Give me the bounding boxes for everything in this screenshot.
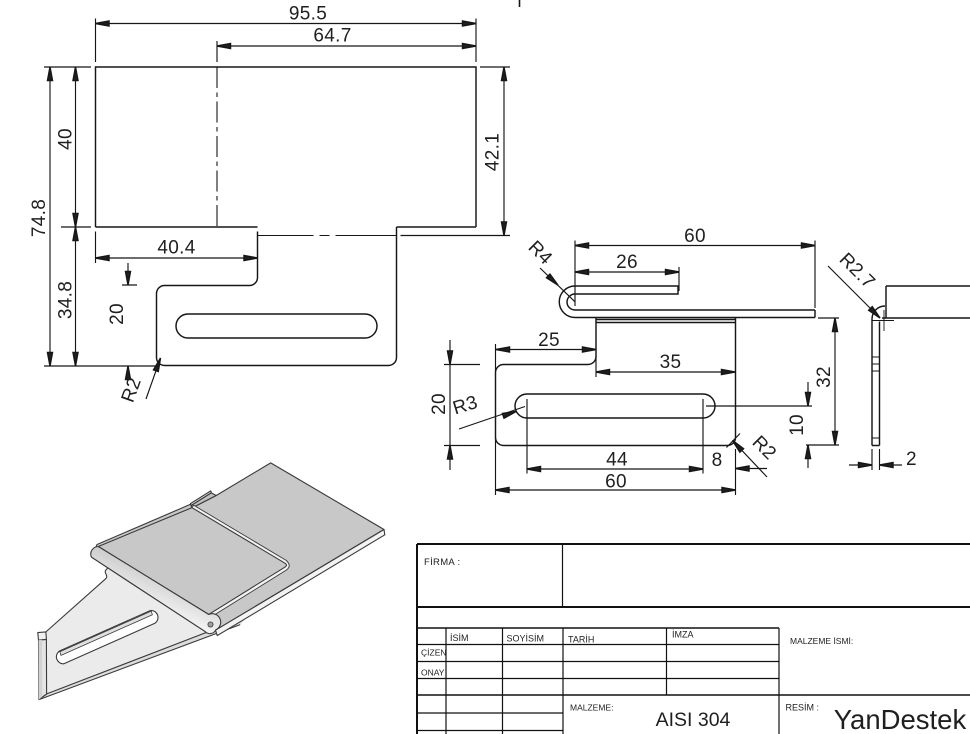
RIGHT END VIEW <box>828 266 970 470</box>
dim 64.7 lines <box>217 41 476 62</box>
svg-text:74.8: 74.8 <box>29 199 50 237</box>
top folded plate edge-on <box>882 286 970 318</box>
dim 8 <box>736 468 768 470</box>
bar visible edges <box>39 567 247 699</box>
clip leaf cut edge sliver <box>192 505 289 617</box>
bar near thickness edge <box>39 617 247 700</box>
bend centerline vertical <box>216 67 218 227</box>
dim 42.1 lines <box>401 67 511 236</box>
soyisim column divider <box>562 628 564 734</box>
svg-text:R2: R2 <box>118 375 146 406</box>
R2.7 leader <box>828 266 880 318</box>
svg-text:R4: R4 <box>524 237 557 270</box>
arm outline middle view <box>496 318 736 446</box>
3D VIEW <box>38 463 385 700</box>
plate outline front view <box>96 67 477 227</box>
dim 25 <box>496 344 597 495</box>
fold end cap hole <box>208 622 213 627</box>
dim 35 <box>596 357 735 378</box>
svg-text:TARİH: TARİH <box>568 635 594 645</box>
slot inner wall sliver <box>60 611 153 655</box>
top stray tick <box>519 0 521 7</box>
onay row line <box>417 678 779 680</box>
label column divider <box>445 628 447 734</box>
svg-text:35: 35 <box>660 352 682 373</box>
slot middle view <box>515 394 715 418</box>
svg-text:64.7: 64.7 <box>313 26 351 47</box>
svg-text:25: 25 <box>538 330 560 351</box>
header row bottom line <box>417 644 779 646</box>
svg-text:34.8: 34.8 <box>56 281 77 319</box>
svg-text:40.4: 40.4 <box>157 238 195 259</box>
svg-text:R2: R2 <box>748 432 780 464</box>
dim 44 <box>527 399 703 474</box>
svg-text:10: 10 <box>787 414 808 436</box>
dim 32 <box>806 318 839 445</box>
svg-text:ONAY: ONAY <box>421 668 445 678</box>
hem main leaf <box>575 310 815 318</box>
cizen row line <box>417 661 779 663</box>
R2 leader middle <box>727 434 768 478</box>
lower rows left <box>417 713 563 731</box>
leader R2 front <box>146 358 161 399</box>
svg-text:60: 60 <box>684 226 706 247</box>
firma cell divider <box>562 544 564 607</box>
svg-text:2: 2 <box>906 449 917 470</box>
MIDDLE VIEW <box>444 241 839 496</box>
bar end tab <box>191 491 212 506</box>
slot front view <box>176 314 377 338</box>
svg-text:32: 32 <box>814 366 835 388</box>
imza column divider <box>778 628 780 734</box>
bend arc R2.7 <box>872 306 885 319</box>
firma row bottom full line <box>417 606 970 608</box>
dim 2 <box>849 449 902 470</box>
dim 40 / 34.8 lines <box>61 67 91 366</box>
svg-text:İMZA: İMZA <box>672 630 694 640</box>
dim 26 <box>575 267 679 291</box>
dim 60 top <box>575 241 815 309</box>
svg-text:60: 60 <box>605 472 627 493</box>
clip fold band R4 <box>91 547 221 634</box>
svg-text:8: 8 <box>712 450 723 471</box>
dim 40.4 lines <box>96 232 258 264</box>
vertical arm edge-on <box>872 319 880 446</box>
plate top face <box>91 463 384 632</box>
svg-text:MALZEME İSMİ:: MALZEME İSMİ: <box>790 636 853 646</box>
arm outline front view <box>157 227 397 366</box>
dim 60 bottom <box>496 449 736 495</box>
svg-text:40: 40 <box>56 128 77 150</box>
header row top line <box>417 627 779 629</box>
svg-text:26: 26 <box>616 252 638 273</box>
svg-text:ÇİZEN: ÇİZEN <box>421 648 447 658</box>
svg-text:R3: R3 <box>450 392 480 419</box>
title block texts <box>421 557 966 734</box>
outer border left <box>416 544 418 734</box>
svg-text:MALZEME:: MALZEME: <box>570 703 613 713</box>
hem fold inner arc <box>567 294 575 310</box>
dim texts front view <box>29 4 504 406</box>
bar end cap top sliver <box>38 632 47 640</box>
svg-text:95.5: 95.5 <box>289 4 327 25</box>
svg-text:AISI 304: AISI 304 <box>656 709 731 731</box>
dim 10 <box>706 382 812 468</box>
R3 leader <box>459 407 525 430</box>
svg-text:44: 44 <box>606 450 628 471</box>
dim 74.8 lines <box>44 67 156 366</box>
clip top face <box>98 508 286 615</box>
tangent ticks on arm <box>872 357 880 438</box>
svg-text:RESİM :: RESİM : <box>786 703 820 713</box>
svg-text:20: 20 <box>429 393 450 415</box>
malzeme row top line <box>417 694 970 696</box>
svg-text:İSİM: İSİM <box>450 633 469 643</box>
dim 20 lines front <box>122 263 137 379</box>
bend center cross ticks <box>872 310 894 331</box>
dim texts middle view <box>429 226 835 493</box>
hem top leaf <box>575 286 678 294</box>
dim 95.5 lines <box>96 19 477 63</box>
svg-text:42.1: 42.1 <box>483 133 504 171</box>
svg-text:YanDestek: YanDestek <box>834 704 967 734</box>
dim 95.5 <box>44 19 510 400</box>
dim texts right view <box>835 249 917 470</box>
dim 20 middle <box>444 340 480 470</box>
svg-text:FİRMA :: FİRMA : <box>424 557 460 568</box>
strip under plate <box>596 320 736 323</box>
svg-text:20: 20 <box>107 303 128 325</box>
arrowheads front view <box>96 21 110 26</box>
svg-text:R2.7: R2.7 <box>835 249 879 293</box>
bar top face <box>46 567 247 694</box>
R4 leader <box>540 268 575 302</box>
hem fold outer arc R4 <box>559 286 575 318</box>
TITLE BLOCK <box>417 544 970 734</box>
slot hole <box>56 610 158 663</box>
tarih column divider <box>666 628 668 695</box>
outer border top <box>417 543 970 545</box>
plate front thickness edge <box>216 530 385 636</box>
bar end cap face <box>39 639 47 699</box>
isim column divider <box>502 628 504 734</box>
phantom edge line <box>258 235 397 237</box>
svg-text:SOYİSİM: SOYİSİM <box>507 634 545 644</box>
